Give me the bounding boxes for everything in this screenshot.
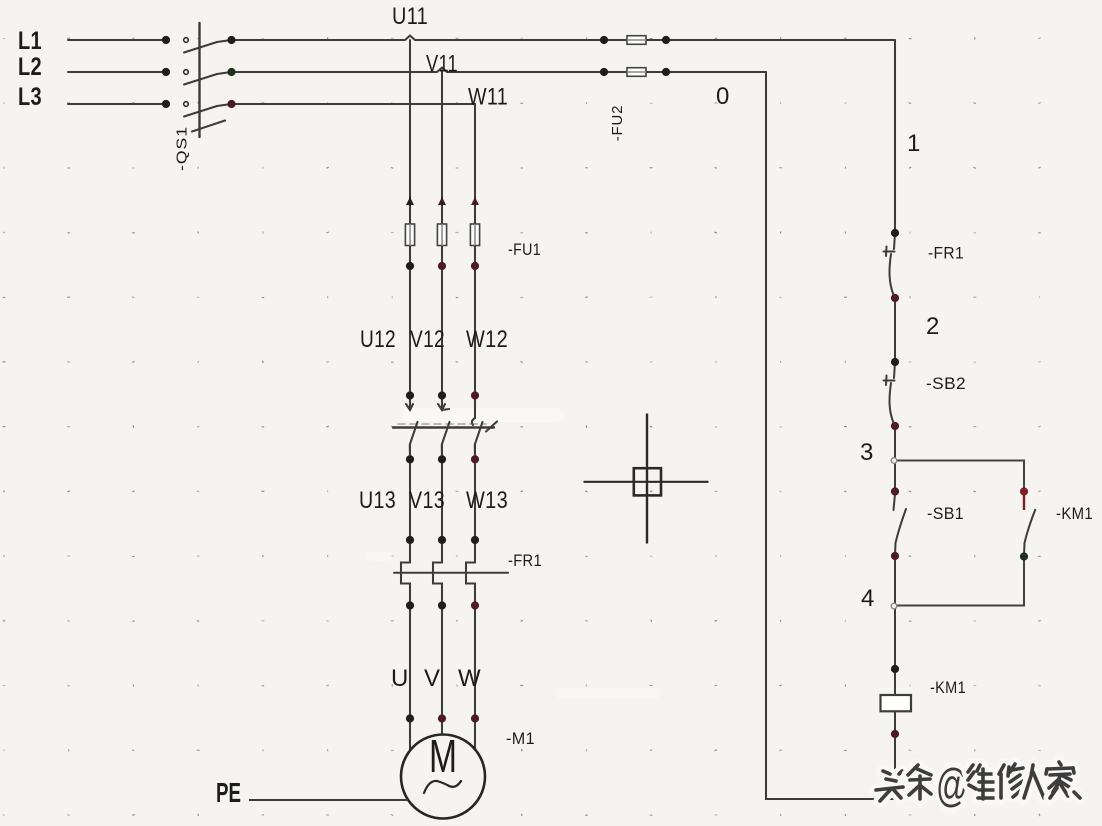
svg-text:-FU1: -FU1 xyxy=(508,241,541,259)
svg-text:L2: L2 xyxy=(18,53,42,81)
svg-text:0: 0 xyxy=(716,83,730,110)
svg-text:V11: V11 xyxy=(426,51,458,78)
svg-text:-FR1: -FR1 xyxy=(508,552,542,570)
svg-text:W: W xyxy=(458,665,481,692)
svg-text:U13: U13 xyxy=(359,487,396,514)
svg-text:U11: U11 xyxy=(392,3,428,30)
svg-text:3: 3 xyxy=(860,439,874,466)
svg-text:L1: L1 xyxy=(18,27,42,55)
svg-text:U12: U12 xyxy=(360,326,396,353)
svg-text:V12: V12 xyxy=(410,326,445,353)
svg-text:4: 4 xyxy=(861,585,875,612)
svg-text:PE: PE xyxy=(216,777,241,808)
svg-text:1: 1 xyxy=(907,130,921,157)
svg-text:-M1: -M1 xyxy=(506,730,535,748)
svg-text:-FR1: -FR1 xyxy=(928,245,964,263)
svg-text:-QS1: -QS1 xyxy=(175,126,191,171)
svg-text:L3: L3 xyxy=(18,83,42,111)
svg-text:U: U xyxy=(391,665,409,692)
svg-text:V13: V13 xyxy=(409,487,445,514)
svg-text:W12: W12 xyxy=(466,326,508,353)
svg-text:W11: W11 xyxy=(468,84,508,111)
svg-text:-KM1: -KM1 xyxy=(1056,505,1093,523)
svg-text:M: M xyxy=(429,730,457,782)
svg-text:W13: W13 xyxy=(466,487,508,514)
svg-text:-SB1: -SB1 xyxy=(927,505,964,523)
svg-text:V: V xyxy=(424,665,440,692)
svg-text:-SB2: -SB2 xyxy=(926,375,966,393)
svg-text:-KM1: -KM1 xyxy=(930,679,966,697)
svg-text:-FU2: -FU2 xyxy=(609,105,626,142)
svg-text:2: 2 xyxy=(926,313,940,340)
